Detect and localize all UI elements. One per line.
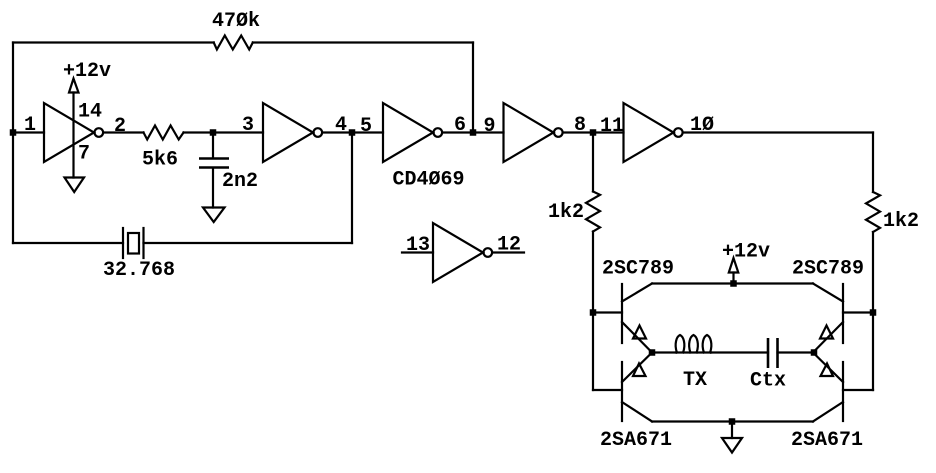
wire: right base bottom (843, 389, 873, 391)
wire: left base top (593, 311, 622, 313)
wire: pin 4 to pin 5 (323, 131, 383, 133)
node: junction dot node 6/9 (470, 129, 477, 136)
label X1 value 32.768 (103, 259, 175, 282)
label U1 part number CD4069 (393, 169, 465, 192)
svg-text:8: 8 (574, 114, 586, 137)
svg-text:3: 3 (242, 114, 254, 137)
node: junction dot +12v tap (730, 280, 737, 287)
label pin 2 (114, 115, 126, 138)
label +12v output stage (722, 241, 770, 264)
node: junction dot right base (870, 309, 877, 316)
svg-text:47: 47 (212, 10, 236, 33)
wire: emitter node to inductor (652, 351, 676, 353)
svg-text:2: 2 (114, 115, 126, 138)
inductor TX (676, 335, 712, 353)
label pin 5 (360, 115, 372, 138)
transistor Q3 2SC789 right NPN (813, 284, 843, 353)
svg-text:9: 9 (484, 115, 496, 138)
label pin 9 (484, 115, 496, 138)
op-amp U1C inverter pins 5-6 (383, 103, 442, 162)
label C1 value 2n2 (222, 170, 258, 193)
svg-text:1k2: 1k2 (548, 201, 584, 224)
resistor R1 470k (214, 36, 253, 50)
svg-text:Ctx: Ctx (750, 370, 786, 393)
label pin 7 (78, 143, 90, 166)
resistor R2 5k6 (144, 126, 184, 140)
power +12v arrow (output stage) (729, 258, 739, 273)
label pin 1 (24, 114, 36, 137)
transistor Q1 2SC789 left NPN (622, 284, 652, 353)
label +12v top left (63, 60, 111, 83)
label R1 value 470k (212, 10, 260, 33)
wire: top feedback left segment (13, 41, 214, 43)
svg-text:Ø69: Ø69 (429, 169, 465, 192)
svg-text:7: 7 (78, 143, 90, 166)
wire: Vdd/Vss line through U1A (72, 93, 74, 178)
svg-text:4: 4 (335, 114, 347, 137)
node: junction dot node 1 / pin 1 (10, 129, 17, 136)
wire: right base top (843, 311, 873, 313)
label TX (683, 369, 707, 392)
op-amp U1B inverter pins 3-4 (263, 103, 322, 162)
op-amp U1D inverter pins 9-8 (504, 103, 563, 162)
ground (C1) (203, 208, 225, 223)
node: junction dot left base (590, 309, 597, 316)
ground (output stage) (722, 438, 742, 453)
wire: top feedback right segment (253, 41, 473, 43)
node: junction dot node 8/11 (590, 129, 597, 136)
svg-text:+12v: +12v (722, 241, 770, 264)
wire: top rail +12v (652, 282, 813, 284)
wire: ground stub (731, 422, 733, 439)
svg-text:1k2: 1k2 (883, 210, 919, 233)
wire: inductor to capacitor (711, 351, 768, 353)
svg-text:2SA671: 2SA671 (600, 429, 672, 452)
svg-text:32.768: 32.768 (103, 259, 175, 282)
transistor Q2 2SA671 left PNP (622, 353, 652, 422)
label pin 14 (78, 101, 102, 124)
label pin 13 (406, 234, 430, 257)
label pin 10 (690, 114, 714, 137)
wire: pin 10 to right bus (683, 131, 873, 133)
node: junction dot right emitter node (811, 349, 818, 356)
svg-text:Øk: Øk (236, 10, 260, 33)
transistor Q4 2SA671 right PNP (813, 353, 843, 422)
resistor R3 1k2 left (586, 133, 600, 391)
wire: pin 6 to pin 9 (443, 131, 504, 133)
label pin 3 (242, 114, 254, 137)
svg-text:14: 14 (78, 101, 102, 124)
svg-text:2SC789: 2SC789 (792, 258, 864, 281)
wire: left vertical bus (node 1) (12, 43, 14, 244)
svg-text:12: 12 (497, 234, 521, 257)
node: junction dot node 3 top of C1 (210, 129, 217, 136)
svg-text:TX: TX (683, 369, 707, 392)
svg-text:2n2: 2n2 (222, 170, 258, 193)
svg-text:+12v: +12v (63, 60, 111, 83)
label Q2 2SA671 (600, 429, 672, 452)
resistor R4 1k2 right (866, 133, 880, 391)
label Q1 2SC789 (602, 258, 674, 281)
label R3 value 1k2 (548, 201, 584, 224)
wire: bottom rail (652, 420, 813, 422)
label pin 4 (335, 114, 347, 137)
wire: node 4/5 down leg (351, 133, 353, 244)
wire: pin 8 to pin 11 (563, 131, 623, 133)
wire: pin 2 to R2 (103, 131, 143, 133)
label Q3 2SC789 (792, 258, 864, 281)
power +12v arrow (U1 pin 14) (69, 79, 79, 93)
label R2 value 5k6 (142, 149, 178, 172)
svg-text:11: 11 (600, 115, 624, 138)
label pin 11 (600, 115, 624, 138)
label pin 12 (497, 234, 521, 257)
label pin 6 (454, 114, 466, 137)
svg-text:CD4: CD4 (393, 169, 429, 192)
svg-text:13: 13 (406, 234, 430, 257)
node: junction dot node 4/5 (349, 129, 356, 136)
crystal X1 32.768 (13, 228, 352, 258)
wire: R2 to node 3 (184, 131, 264, 133)
capacitor Ctx (768, 338, 813, 368)
wire: 470k right leg down to node 9 (472, 43, 474, 133)
label Q4 2SA671 (791, 429, 863, 452)
svg-text:2SA671: 2SA671 (791, 429, 863, 452)
capacitor C1 2n2 (199, 133, 229, 208)
svg-text:5k6: 5k6 (142, 149, 178, 172)
node: junction dot left emitter node (649, 349, 656, 356)
svg-text:5: 5 (360, 115, 372, 138)
node: junction dot ground tap (729, 418, 736, 425)
ground (U1 pin 7) (65, 178, 85, 193)
svg-text:2SC789: 2SC789 (602, 258, 674, 281)
wire: left base bottom (593, 389, 622, 391)
wire: pin 1 input (13, 131, 44, 133)
svg-text:6: 6 (454, 114, 466, 137)
op-amp U1F unused inverter pins 13-12 (402, 223, 524, 282)
op-amp U1E inverter pins 11-10 (624, 103, 683, 162)
label pin 8 (574, 114, 586, 137)
op-amp U1A inverter pins 1-2 (44, 103, 103, 162)
label R4 value 1k2 (883, 210, 919, 233)
label Ctx (750, 370, 786, 393)
wire: +12v stub (732, 273, 734, 284)
svg-text:1: 1 (24, 114, 36, 137)
